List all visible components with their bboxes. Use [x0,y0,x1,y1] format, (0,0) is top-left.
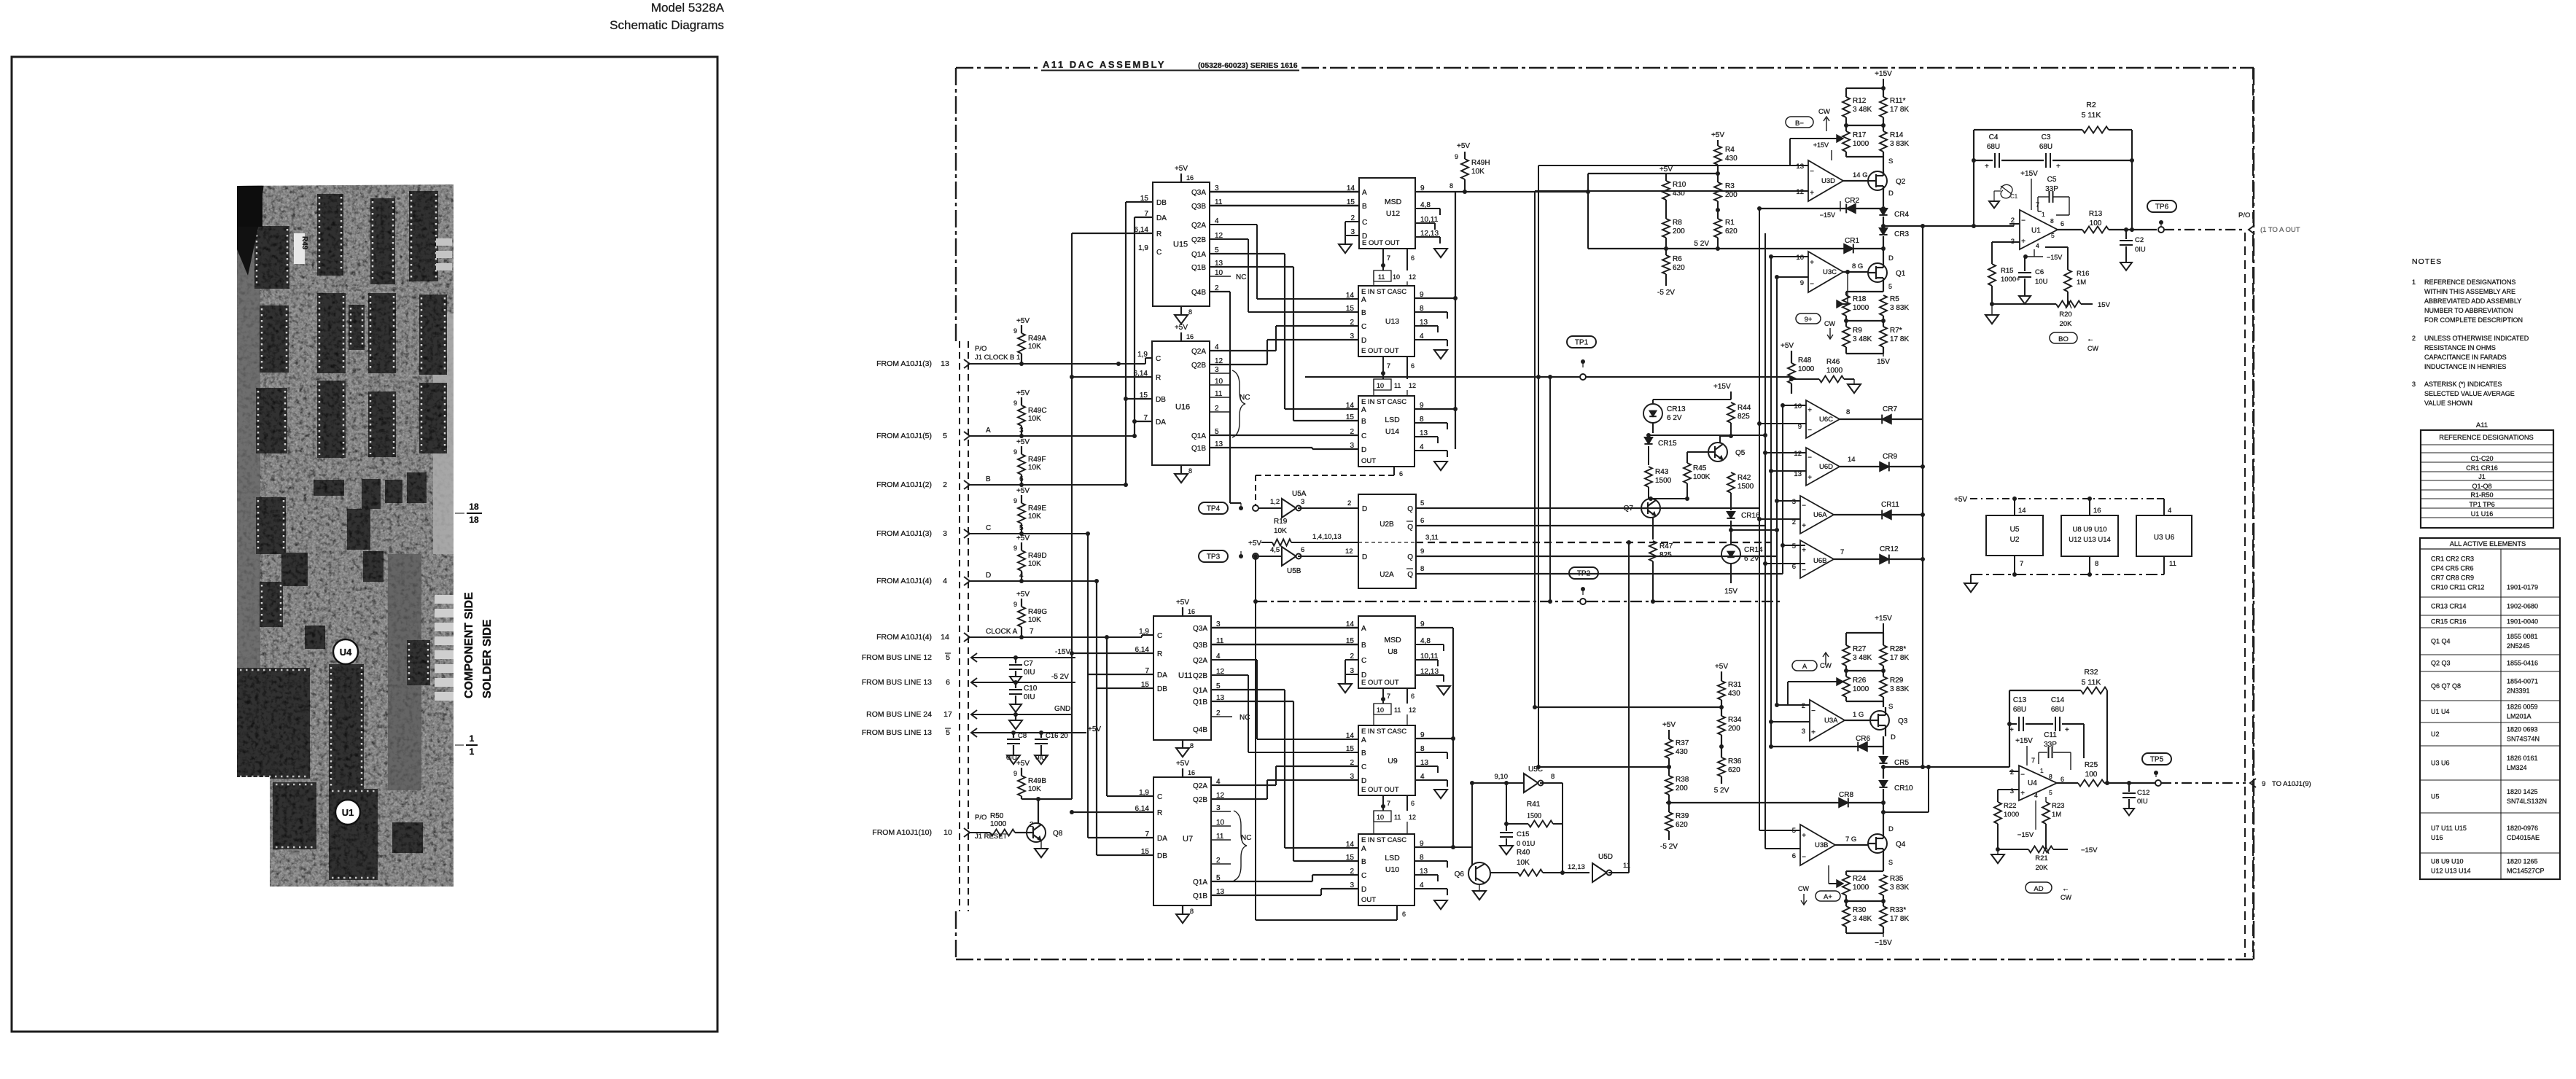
svg-text:+5V: +5V [1175,165,1188,173]
wire input D [970,580,1097,582]
svg-text:100K: 100K [1693,473,1711,481]
wire U11 Q2B to U9 B [1211,674,1248,676]
svg-text:Q1B: Q1B [1193,892,1207,900]
ground below C10 [1010,704,1022,712]
svg-text:U4: U4 [340,647,352,658]
svg-text:12: 12 [1409,814,1416,821]
svg-text:+: + [1808,474,1812,482]
svg-text:17 8K: 17 8K [1890,335,1909,343]
power box U5 U2 [1986,515,2043,556]
U9 output stubs right [1415,738,1453,739]
svg-text:1: 1 [2412,278,2416,286]
svg-text:1902-0680: 1902-0680 [2507,603,2538,610]
svg-text:6,14: 6,14 [1135,226,1149,234]
svg-text:-15V: -15V [1055,648,1070,656]
resistor R42 1500 [1727,472,1735,493]
wire U2 pins 3,11 [1416,542,1771,543]
svg-text:WITHIN THIS ASSEMBLY ARE: WITHIN THIS ASSEMBLY ARE [2424,288,2515,295]
U1 output R13 100 [2058,229,2082,230]
svg-text:10K: 10K [1517,859,1530,867]
svg-text:9: 9 [1013,545,1017,552]
svg-text:15: 15 [1141,681,1150,689]
svg-text:2: 2 [1792,518,1796,526]
svg-text:B−: B− [1795,120,1804,128]
analog input mesh verticals [1759,209,1760,830]
svg-text:+5V: +5V [1176,599,1189,607]
svg-text:Q5: Q5 [1735,449,1746,457]
svg-text:430: 430 [1725,155,1738,163]
svg-text:Q7: Q7 [1624,505,1634,513]
svg-text:3: 3 [1802,728,1805,736]
inverter U5D [1592,863,1607,882]
svg-text:68U: 68U [2013,706,2026,714]
svg-text:1500: 1500 [1527,812,1541,820]
wire U16 Q1A to U14 C [1210,435,1358,436]
svg-text:UNLESS OTHERWISE INDICATED: UNLESS OTHERWISE INDICATED [2424,335,2529,342]
svg-text:U7 U11 U15: U7 U11 U15 [2431,825,2467,832]
wire clock B [970,363,1145,365]
svg-text:3: 3 [943,529,947,538]
svg-text:Q1B: Q1B [1193,698,1207,706]
svg-text:R36: R36 [1728,757,1742,766]
svg-text:4,5: 4,5 [1270,546,1280,554]
svg-text:Q2A: Q2A [1193,782,1207,790]
svg-text:U6A: U6A [1813,511,1827,519]
svg-text:J1: J1 [2478,473,2486,480]
svg-text:ASTERISK (*) INDICATES: ASTERISK (*) INDICATES [2424,381,2502,388]
svg-text:MSD: MSD [1385,198,1402,206]
svg-text:1: 1 [470,733,475,744]
DAC U12 MSD [1359,178,1415,249]
svg-text:R9: R9 [1853,327,1862,335]
svg-text:10: 10 [1393,273,1400,281]
svg-text:8: 8 [1846,408,1850,416]
svg-text:200: 200 [1676,784,1688,792]
svg-text:R27: R27 [1853,645,1867,653]
DAC U14 LSD [1358,396,1415,467]
inverter U5B [1258,556,1282,557]
svg-text:VALUE SHOWN: VALUE SHOWN [2424,400,2472,407]
wire U16 Q2A to U13 C [1210,350,1276,351]
transistor Q5 [1708,443,1727,461]
svg-text:CR14: CR14 [1744,546,1763,554]
svg-text:Model 5328A: Model 5328A [651,1,725,15]
svg-text:15V: 15V [1724,588,1738,596]
svg-text:10: 10 [1796,254,1804,262]
svg-text:R40: R40 [1517,849,1530,857]
svg-text:100: 100 [2085,771,2098,779]
diode CR2 [1846,204,1856,214]
test point TP1 [1567,336,1596,348]
svg-text:1,9: 1,9 [1139,789,1149,797]
wire U2B Qbar out [1416,525,1765,526]
svg-text:+5V: +5V [1457,142,1470,150]
svg-text:Q8: Q8 [1053,830,1063,838]
-15V at U1 pin 4 [2034,249,2035,257]
resistor pair R12 R11 [1846,87,1883,89]
svg-text:1: 1 [2042,211,2045,218]
svg-text:1820-0976: 1820-0976 [2507,825,2538,832]
long verticals mid-left [1538,165,1539,767]
svg-text:C: C [1361,323,1366,331]
svg-text:TP1 TP6: TP1 TP6 [2469,501,2494,508]
adjust B- CW arrow [1786,117,1813,128]
svg-text:R28*: R28* [1890,645,1906,653]
U10 OUT pin 6 [1396,905,1398,920]
wire U2A Q out [1416,556,1777,557]
svg-text:+5V: +5V [1016,534,1030,542]
svg-text:5: 5 [2049,789,2052,796]
U7 ground pin 8 [1182,905,1183,914]
svg-text:3: 3 [2010,787,2014,795]
svg-text:R17: R17 [1853,131,1867,139]
svg-text:FROM A10J1(2): FROM A10J1(2) [876,480,932,489]
diode CR16 [1727,512,1735,518]
svg-text:TO A10J1(9): TO A10J1(9) [2272,780,2311,788]
svg-text:C: C [1156,249,1161,257]
svg-text:U1: U1 [342,807,354,818]
svg-text:1826 0059: 1826 0059 [2507,704,2538,711]
svg-text:U4: U4 [2028,779,2037,787]
svg-text:9: 9 [1800,279,1804,287]
svg-text:2N5245: 2N5245 [2507,642,2530,650]
svg-text:7: 7 [1387,254,1390,262]
svg-text:825: 825 [1738,413,1750,421]
svg-text:C: C [1157,632,1162,640]
svg-text:−15V: −15V [1875,939,1892,947]
svg-text:R11*: R11* [1890,97,1906,105]
ground below C6 [2019,296,2031,304]
svg-text:200: 200 [1673,227,1685,235]
svg-text:R14: R14 [1890,131,1904,139]
svg-text:1,9: 1,9 [1138,244,1148,252]
U14 ground right [1434,461,1447,470]
U6C output diode CR7 [1840,418,1894,420]
U12 C/D ground stub [1345,221,1359,222]
svg-text:20K: 20K [2036,864,2049,872]
svg-text:U12: U12 [1386,209,1400,218]
svg-text:Q1: Q1 [1896,270,1906,278]
svg-text:+5V: +5V [1954,496,1967,504]
svg-text:D: D [986,572,991,580]
resistor pair R27 R28 [1846,632,1883,634]
svg-text:C10: C10 [1024,685,1038,693]
svg-text:10K: 10K [1028,785,1041,793]
svg-text:FOR COMPLETE DESCRIPTION: FOR COMPLETE DESCRIPTION [2424,316,2523,324]
svg-text:1000: 1000 [990,820,1007,828]
U6A output diode CR11 [1834,514,1894,515]
svg-text:OUT: OUT [1361,896,1376,904]
wire CR13 node to mesh [1649,435,1765,436]
svg-text:D: D [1361,777,1366,785]
svg-text:U2: U2 [2010,536,2020,544]
svg-text:R49D: R49D [1028,552,1047,560]
adjust BO CW [2050,332,2077,343]
svg-text:7: 7 [1144,210,1148,218]
svg-text:6,14: 6,14 [1135,805,1150,813]
svg-text:5: 5 [943,432,947,440]
svg-text:A: A [1361,845,1366,853]
svg-text:S: S [1888,703,1893,711]
svg-text:R20: R20 [2059,311,2071,319]
ground below C1 [1989,201,1999,208]
svg-text:CR10 CR11 CR12: CR10 CR11 CR12 [2431,584,2484,591]
ground below Q6 [1479,884,1480,891]
svg-text:10U: 10U [2035,278,2048,286]
svg-text:Q2A: Q2A [1191,222,1206,230]
wire U2A Qbar out [1416,573,1783,574]
svg-text:Q1A: Q1A [1193,879,1207,887]
svg-text:Q4B: Q4B [1193,726,1207,734]
svg-text:Q2B: Q2B [1191,236,1206,244]
wire U11 Q3B to U8 B [1211,644,1359,646]
photo callout circle U1 [335,800,360,825]
U3B output to Q4 gate [1835,844,1868,846]
svg-text:A: A [1361,625,1366,633]
table all active elements [2420,538,2560,879]
svg-text:1000: 1000 [1853,884,1869,892]
svg-text:1820 0693: 1820 0693 [2507,726,2538,733]
svg-text:12: 12 [1796,188,1804,196]
svg-text:620: 620 [1728,766,1740,774]
svg-text:R43: R43 [1655,468,1669,476]
svg-text:18: 18 [469,502,479,512]
svg-text:+: + [1985,163,1989,171]
svg-text:8: 8 [2050,217,2054,225]
svg-text:D: D [1361,337,1366,345]
wire U7 Q1B to U10 D [1211,895,1321,896]
svg-text:U5A: U5A [1292,490,1307,498]
wire U15 Q1B to U14 B [1210,266,1293,268]
U9 bottom pins 7 6 [1382,795,1384,811]
svg-text:−: − [1808,454,1812,462]
svg-text:6 2V: 6 2V [1667,414,1682,422]
op amp U1 [2020,210,2058,249]
svg-text:6: 6 [1411,254,1415,262]
svg-text:U3 U6: U3 U6 [2154,534,2175,542]
svg-text:←: ← [2062,885,2069,893]
svg-text:R1: R1 [1725,219,1735,227]
svg-text:DB: DB [1157,685,1167,693]
svg-text:33P: 33P [2044,741,2057,749]
svg-text:16: 16 [1186,174,1194,182]
svg-text:5 2V: 5 2V [1694,240,1709,248]
svg-text:LM324: LM324 [2507,764,2527,771]
wire U11 Q2A to U9 A [1211,659,1257,661]
zener CR14 6.2V [1721,545,1740,564]
ground after R46 [1853,379,1855,384]
svg-text:SELECTED VALUE AVERAGE: SELECTED VALUE AVERAGE [2424,390,2515,397]
svg-text:R37: R37 [1676,739,1689,747]
svg-text:Q3A: Q3A [1191,189,1206,197]
svg-text:←: ← [2087,335,2094,343]
svg-text:3 48K: 3 48K [1853,915,1872,923]
wire U7 Q1A to U10 C [1211,881,1312,882]
svg-text:−: − [1802,566,1806,574]
svg-text:FROM BUS LINE 12: FROM BUS LINE 12 [862,653,932,662]
svg-text:100: 100 [2090,219,2102,227]
wiper arrow into R18 [1843,303,1848,305]
svg-text:C5: C5 [2047,176,2057,184]
svg-text:R44: R44 [1738,404,1751,412]
svg-text:B: B [1361,309,1366,317]
op amp U3C [1808,252,1843,292]
svg-text:C1-C20: C1-C20 [2470,455,2493,462]
transistor Q7 [1641,499,1660,518]
svg-text:5: 5 [2051,232,2055,239]
svg-text:8: 8 [2095,560,2098,568]
shift register U16 [1152,341,1210,465]
op amp U6D [1806,448,1840,486]
wire TP3 down [1255,556,1256,601]
svg-text:13: 13 [1796,163,1804,171]
svg-text:ALL ACTIVE ELEMENTS: ALL ACTIVE ELEMENTS [2450,540,2526,548]
svg-text:FROM A10J1(5): FROM A10J1(5) [876,432,932,440]
svg-text:14 G: 14 G [1853,171,1868,179]
DAC U8 MSD [1358,616,1415,688]
svg-text:FROM BUS LINE 13: FROM BUS LINE 13 [862,678,932,687]
wire U11 Q1A to U10 A [1211,689,1285,690]
svg-text:6,14: 6,14 [1134,370,1148,378]
svg-text:7: 7 [2031,757,2035,764]
U14 OUT pin 6 to U5A line [1393,467,1395,475]
svg-text:5 2V: 5 2V [1714,787,1729,795]
op amp U6B [1800,540,1834,578]
zener CR13 6.2V [1643,404,1662,423]
svg-text:D: D [1362,505,1367,513]
svg-text:Q3: Q3 [1898,717,1908,725]
svg-text:1000+: 1000+ [2001,276,2020,284]
svg-text:−: − [1802,854,1806,862]
svg-text:U2B: U2B [1380,521,1394,529]
potentiometer R26 1000 and R29 [1842,677,1850,697]
svg-text:U5: U5 [2010,526,2020,534]
svg-text:−: − [1811,707,1816,715]
svg-text:3: 3 [1792,498,1796,506]
U3D output to Q2 gate [1843,180,1868,182]
svg-text:+15V: +15V [1813,141,1829,149]
svg-text:R49F: R49F [1028,456,1046,464]
flip-flop U2B/U2A [1358,494,1416,588]
svg-text:U12 U13 U14: U12 U13 U14 [2431,868,2471,875]
svg-text:1855-0416: 1855-0416 [2507,660,2538,667]
svg-text:TP5: TP5 [2150,756,2164,764]
svg-text:+: + [1802,547,1806,555]
svg-text:9,10: 9,10 [1495,773,1509,781]
svg-text:+: + [2009,726,2014,734]
svg-text:C12: C12 [2137,789,2149,797]
op amp U3D [1808,160,1843,201]
svg-text:5: 5 [1888,283,1892,290]
test point TP5 [2142,753,2171,765]
svg-text:R2: R2 [2086,101,2096,109]
svg-text:R49E: R49E [1028,505,1046,513]
U8 ground right [1437,686,1450,695]
wire CR16 node to mesh [1731,529,1777,531]
svg-text:1: 1 [470,747,475,757]
svg-text:D: D [1888,190,1894,198]
svg-text:Q2 Q3: Q2 Q3 [2431,660,2451,667]
svg-text:Q2B: Q2B [1193,796,1207,804]
svg-text:0IU: 0IU [2137,798,2148,806]
svg-text:0 01U: 0 01U [1517,840,1535,848]
svg-text:CR7: CR7 [1883,405,1897,413]
svg-text:R49H: R49H [1471,159,1490,167]
svg-text:1 G: 1 G [1853,711,1864,719]
svg-text:DB: DB [1156,199,1167,207]
svg-text:R42: R42 [1738,474,1751,482]
svg-text:C: C [986,524,991,532]
svg-text:DA: DA [1156,214,1167,222]
svg-text:FROM A10J1(4): FROM A10J1(4) [876,633,932,642]
svg-text:CR6: CR6 [1856,735,1870,743]
svg-text:10K: 10K [1028,513,1041,521]
test point TP3 [1199,550,1228,562]
resistor R43 1500 [1645,467,1652,487]
U3A output to Q3 gate [1845,720,1870,721]
svg-text:6: 6 [1411,693,1415,700]
svg-text:R24: R24 [1853,875,1867,883]
svg-text:R22: R22 [2004,802,2016,810]
svg-text:B: B [1361,749,1366,757]
svg-text:620: 620 [1673,264,1685,272]
svg-text:AD: AD [2034,885,2043,893]
svg-text:+15V: +15V [2020,170,2038,178]
svg-text:Q2B: Q2B [1191,362,1206,370]
svg-text:C7: C7 [1024,660,1033,668]
svg-text:ABBREVIATED ADD ASSEMBLY: ABBREVIATED ADD ASSEMBLY [2424,297,2521,305]
wire U15 Q3A to U12 A [1210,191,1359,193]
svg-text:13: 13 [941,359,949,368]
svg-text:+: + [1810,259,1814,267]
wire U7 Q2A to U9 C [1211,784,1276,786]
shift register U7 [1153,777,1211,905]
svg-text:R46: R46 [1826,358,1840,366]
svg-text:CR7 CR8 CR9: CR7 CR8 CR9 [2431,574,2474,582]
svg-text:+: + [1810,190,1814,198]
svg-text:U1: U1 [2031,227,2041,235]
resistor R15 1000 [1991,242,1993,264]
FET Q3 [1870,711,1889,730]
cascade pin row 10 11 12 above U9 [1374,704,1391,714]
svg-text:S: S [1888,157,1893,165]
svg-text:C14: C14 [2051,696,2065,704]
svg-text:OUT: OUT [1361,457,1376,465]
svg-text:11: 11 [1394,382,1401,389]
wiper arrow into R17 [1790,138,1840,139]
svg-text:1000: 1000 [1853,685,1869,693]
wire U15 Q4B down [1210,291,1230,292]
svg-text:ROM BUS LINE 24: ROM BUS LINE 24 [866,710,932,719]
svg-text:TP1: TP1 [1575,339,1589,347]
svg-text:1,2: 1,2 [1270,498,1280,506]
svg-text:Q1 Q4: Q1 Q4 [2431,638,2451,645]
svg-text:1000: 1000 [2004,811,2019,819]
R20 20K pot wiper line [1992,303,2056,305]
svg-text:U12 U13 U14: U12 U13 U14 [2069,536,2111,544]
svg-text:10K: 10K [1028,464,1041,472]
svg-text:SOLDER SIDE: SOLDER SIDE [481,619,494,698]
cascade pin row 10 11 12 above U14 [1374,379,1391,390]
wire to U1 input [1883,225,2014,227]
svg-text:R49: R49 [300,236,308,250]
svg-text:CR1 CR16: CR1 CR16 [2466,464,2498,472]
svg-text:R: R [1156,230,1161,238]
svg-text:12: 12 [1794,450,1802,458]
svg-text:R19: R19 [1274,518,1288,526]
svg-text:R3: R3 [1725,182,1735,190]
svg-text:C6: C6 [2035,268,2044,276]
